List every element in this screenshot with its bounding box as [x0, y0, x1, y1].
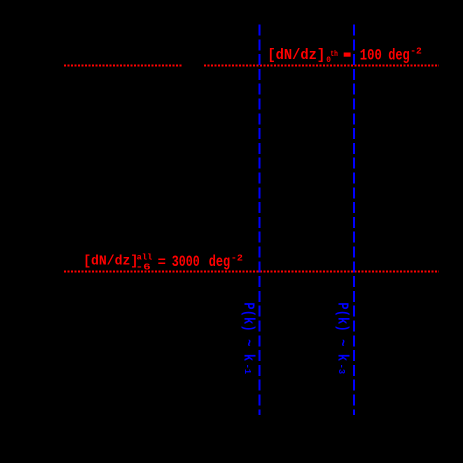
svg-text:-3: -3	[336, 364, 346, 375]
svg-text:-2: -2	[231, 253, 243, 263]
svg-text:-2: -2	[410, 46, 422, 56]
svg-text:deg: deg	[209, 253, 230, 271]
svg-text:100: 100	[360, 47, 382, 65]
svg-text:deg: deg	[388, 47, 410, 65]
svg-text:-1: -1	[242, 364, 252, 375]
svg-text:3000: 3000	[172, 253, 200, 271]
blue dashed vertical line 2 (x=354)	[353, 25, 355, 416]
svg-text:0: 0	[326, 57, 331, 65]
blue dashed vertical line 1 (x=259.5)	[259, 25, 261, 416]
svg-text:-6: -6	[136, 261, 151, 272]
svg-text:[dN/dz]: [dN/dz]	[267, 48, 325, 64]
svg-text:P(k) ~ k: P(k) ~ k	[333, 302, 349, 361]
red dotted threshold line 2 (y=271.4)	[64, 271, 439, 273]
svg-text:=: =	[158, 256, 166, 271]
red label 1 equals	[344, 53, 351, 57]
red dotted threshold line 1 (left segment, y=65.5)	[64, 65, 181, 67]
svg-text:th: th	[330, 49, 338, 59]
red dotted threshold line 1 (right segment after gap)	[204, 65, 439, 67]
svg-text:[dN/dz]: [dN/dz]	[83, 253, 138, 269]
svg-text:P(k) ~ k: P(k) ~ k	[240, 302, 256, 361]
